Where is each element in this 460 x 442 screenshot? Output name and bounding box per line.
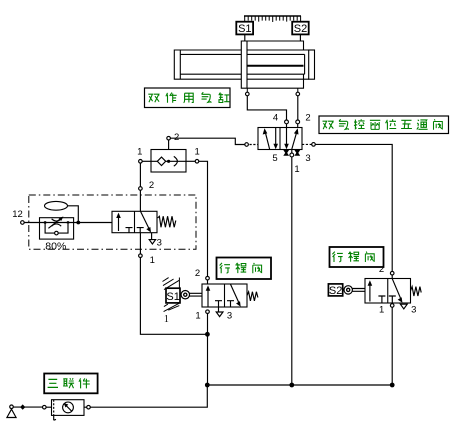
svg-text:1: 1 <box>195 146 200 157</box>
wire S1 stem <box>244 34 246 41</box>
svg-text:5: 5 <box>272 153 277 164</box>
cam hatching S1 <box>163 278 180 312</box>
delay valve dash-dot enclosure <box>29 195 196 249</box>
svg-text:3: 3 <box>411 305 416 316</box>
exhaust 3 S2 valve <box>400 304 407 309</box>
port cylinder left <box>246 92 250 96</box>
svg-text:S2: S2 <box>294 23 307 35</box>
wire S2 valve port1 to bus <box>391 307 393 385</box>
spring S1 valve <box>247 292 258 301</box>
svg-text:1: 1 <box>137 146 142 157</box>
trip box S1 <box>166 288 180 303</box>
spring S2 valve <box>411 287 422 296</box>
svg-text:4: 4 <box>273 112 278 123</box>
spring delay valve <box>158 216 176 227</box>
pilot port right <box>302 143 312 145</box>
node bus right <box>390 383 395 388</box>
label box 双气控两位五通阀 <box>319 116 449 134</box>
limit valve S1 3/2 roller <box>206 276 210 280</box>
wire FRL to bus riser <box>90 385 207 407</box>
svg-text:S1: S1 <box>166 291 179 303</box>
wire S1 valve port1 to bus <box>207 314 209 386</box>
svg-text:3: 3 <box>157 238 162 249</box>
wire reservoir to pilot line <box>68 206 79 223</box>
wire right pilot to S2 valve port 2 <box>315 144 392 271</box>
wire bottom bus <box>207 384 392 386</box>
muffler port 5 <box>283 150 289 156</box>
service unit FRL <box>43 400 91 421</box>
svg-text:S2: S2 <box>329 285 342 297</box>
exhaust 3 S1 valve <box>218 307 220 312</box>
port 1 S2 valve <box>390 304 394 308</box>
port 1 <box>290 153 294 157</box>
node bus left <box>205 383 210 388</box>
port 4 <box>285 120 289 124</box>
port delay 2 <box>139 187 143 191</box>
delay pilot 3/2 valve <box>112 211 157 232</box>
wire delay port2 stem <box>139 190 141 211</box>
svg-text:2: 2 <box>305 113 310 124</box>
svg-text:1: 1 <box>164 314 169 325</box>
label box 双作用气缸 <box>145 88 231 108</box>
wire source to FRL <box>13 406 42 408</box>
roller S1 <box>181 291 189 299</box>
port shuttle 1 right <box>195 160 199 164</box>
wire shuttle right to S1 valve port 2 <box>199 161 208 276</box>
roller S2 <box>344 286 352 294</box>
svg-text:2: 2 <box>174 132 179 143</box>
label box 行程阀 left <box>217 258 272 280</box>
svg-text:2: 2 <box>195 268 200 279</box>
shuttle valve <box>151 140 186 172</box>
port 1 S1 valve <box>206 310 210 314</box>
node reservoir junction <box>76 221 80 225</box>
port delay 1 <box>139 233 141 254</box>
trip box S2 <box>328 284 342 296</box>
wire cylinder left to valve port 4 <box>247 96 286 120</box>
exhaust 3 delay valve <box>151 233 153 240</box>
wire shuttle left to delay valve port 2 <box>139 163 141 187</box>
port cylinder right <box>296 92 300 96</box>
throttle check valve assembly <box>40 217 74 240</box>
air reservoir <box>45 201 68 210</box>
svg-text:1: 1 <box>294 164 299 175</box>
label box 三联件 <box>44 374 97 394</box>
ruler scale above cylinder <box>244 16 301 22</box>
svg-text:2: 2 <box>149 180 154 191</box>
compressed air source <box>10 405 14 409</box>
cylinder U1 double-acting with yoke <box>174 41 314 92</box>
svg-text:S1: S1 <box>238 23 251 35</box>
node plug diamond <box>20 404 25 409</box>
wire cylinder right to valve port 2 <box>297 96 299 120</box>
node bus mid <box>289 383 294 388</box>
port delay 12 <box>21 221 25 225</box>
port shuttle 1 left <box>139 160 143 164</box>
port shuttle 2 <box>167 136 171 140</box>
limit valve S2 3/2 roller <box>390 271 394 275</box>
sensor S2 <box>292 22 309 35</box>
wire S2 stem <box>299 34 301 41</box>
svg-text:1: 1 <box>195 311 200 322</box>
pilot port left <box>250 144 259 146</box>
node junction delay/S1 <box>205 332 210 337</box>
svg-text:1: 1 <box>379 305 384 316</box>
wire delay port1 to junction <box>140 258 207 335</box>
muffler port 3 <box>294 150 300 156</box>
svg-text:3: 3 <box>227 311 232 322</box>
wire pilot 12 <box>24 222 112 224</box>
sensor S1 <box>236 22 253 35</box>
wire left pilot to shuttle <box>170 138 244 144</box>
valve V1 5/2 double pilot <box>258 128 302 150</box>
svg-text:1: 1 <box>150 255 155 266</box>
svg-text:3: 3 <box>305 153 310 164</box>
wire valve port1 to bus <box>291 157 293 385</box>
label box 行程阀 right <box>330 247 384 267</box>
port 2 <box>296 120 300 124</box>
svg-text:80%: 80% <box>45 240 66 252</box>
svg-text:12: 12 <box>12 209 23 220</box>
